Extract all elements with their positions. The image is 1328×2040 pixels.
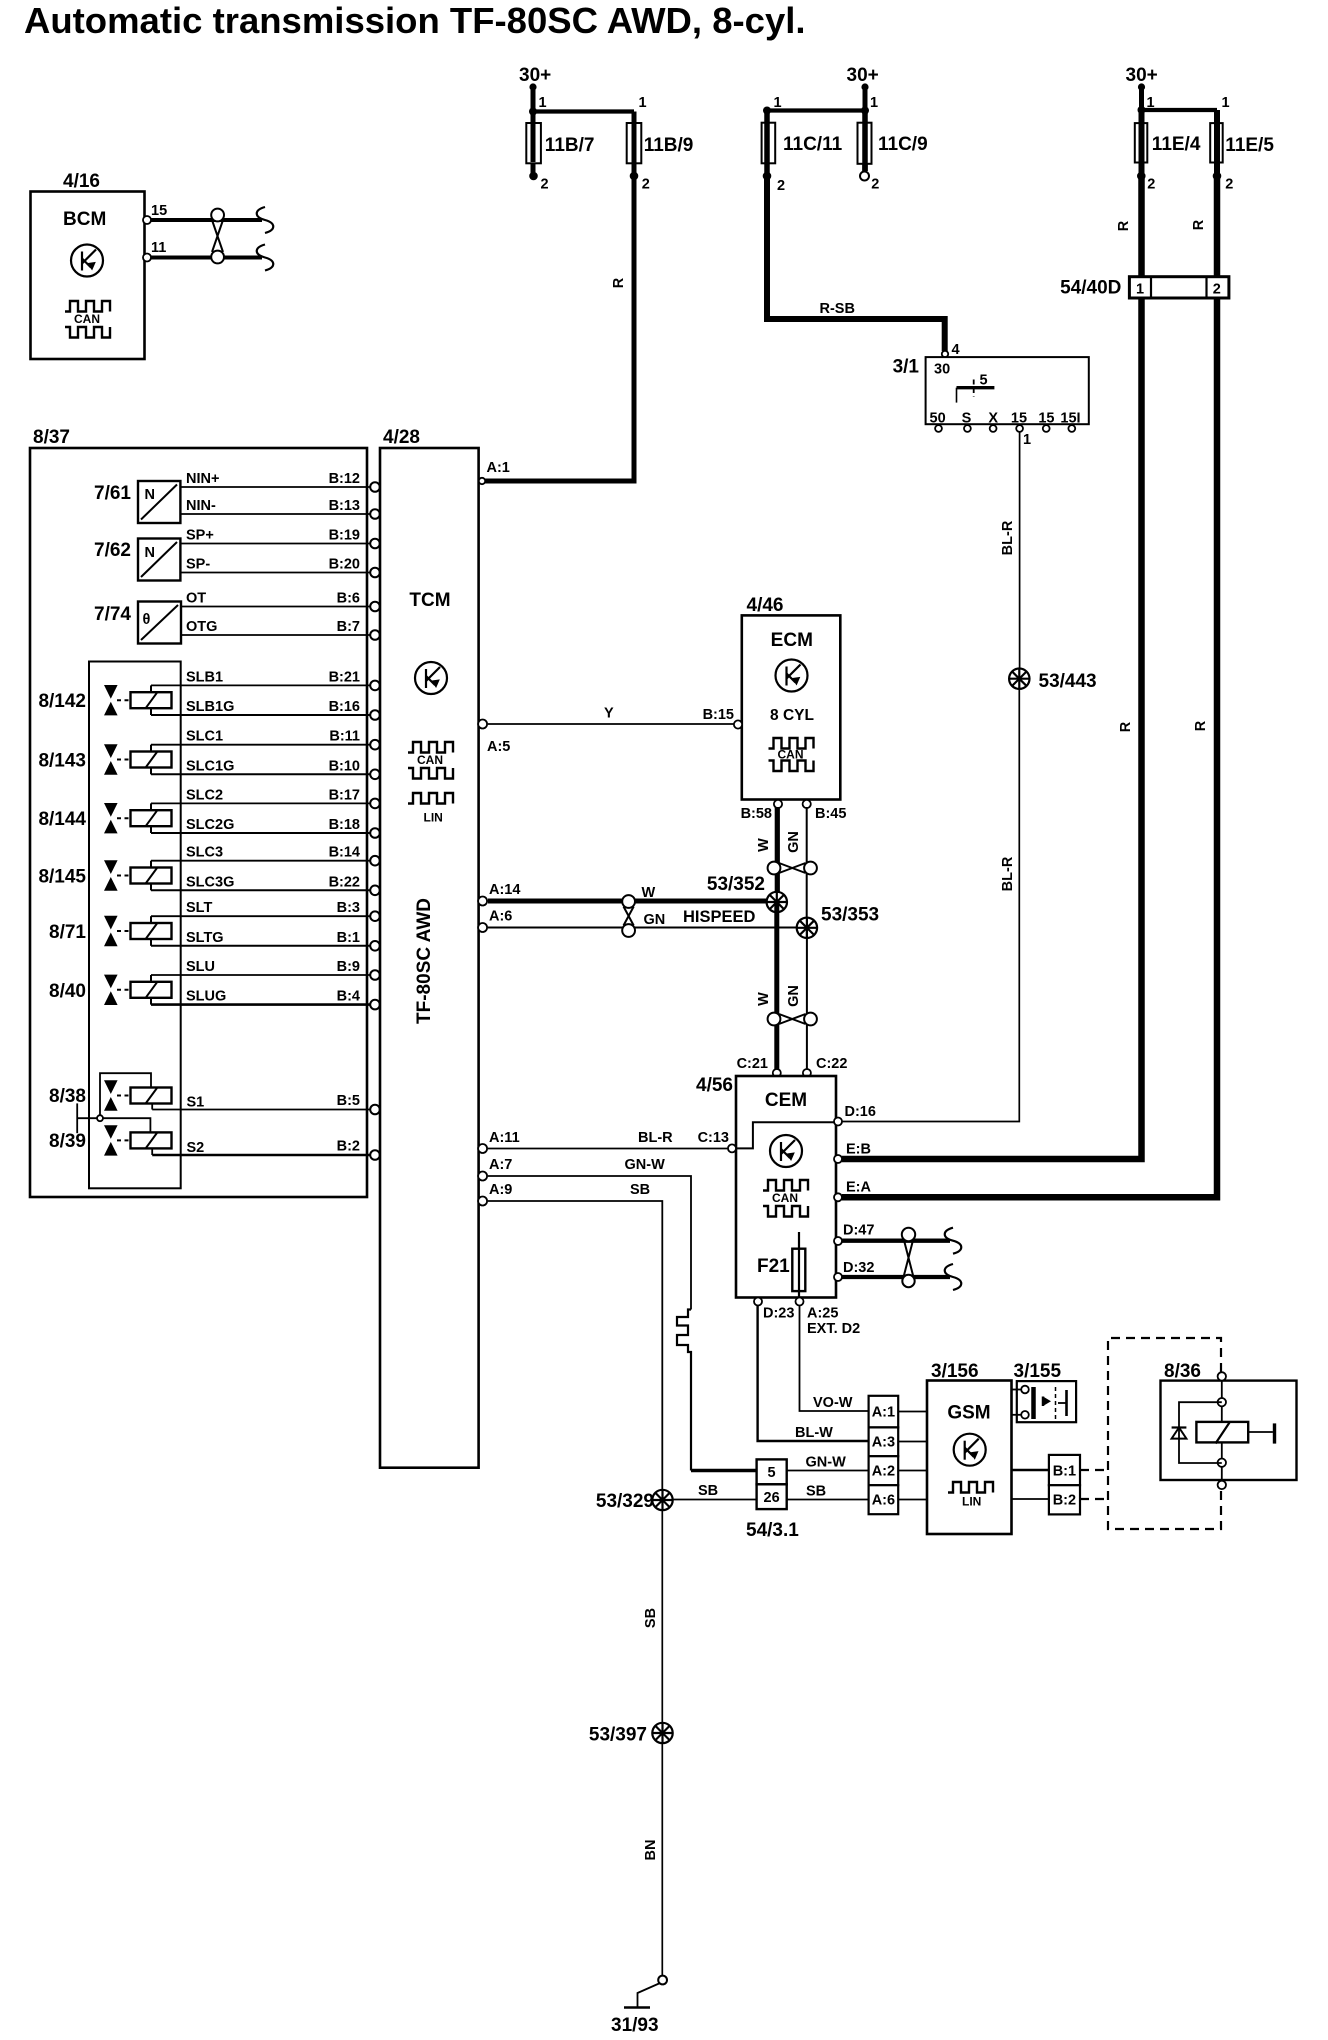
svg-text:X: X <box>988 411 998 427</box>
svg-text:BL-R: BL-R <box>1000 856 1016 891</box>
svg-text:3/155: 3/155 <box>1014 1361 1062 1382</box>
svg-text:W: W <box>642 885 656 901</box>
svg-text:15: 15 <box>151 203 167 219</box>
svg-text:BCM: BCM <box>63 209 106 230</box>
ground 31/93 <box>611 1976 667 2036</box>
solenoid valve 8/39 <box>49 1125 171 1155</box>
svg-text:4/16: 4/16 <box>63 171 100 192</box>
svg-text:SB: SB <box>630 1182 650 1198</box>
fuse 11B/9 <box>627 112 694 193</box>
svg-text:R: R <box>1193 720 1209 731</box>
svg-text:R-SB: R-SB <box>820 301 855 317</box>
svg-text:SB: SB <box>806 1484 826 1500</box>
svg-text:SLB1: SLB1 <box>186 669 223 685</box>
wire SLC1G <box>151 758 380 779</box>
svg-text:NIN+: NIN+ <box>186 471 219 487</box>
svg-text:B:3: B:3 <box>337 900 360 916</box>
svg-text:1: 1 <box>1147 95 1155 111</box>
svg-text:BL-R: BL-R <box>1000 520 1016 555</box>
CEM pin E:B <box>834 1142 871 1164</box>
wire SLT <box>151 900 380 921</box>
svg-text:BL-W: BL-W <box>795 1425 833 1441</box>
svg-text:8/144: 8/144 <box>38 809 86 830</box>
wire VO-W from CEM A:25 to GSM A:1 <box>800 1306 869 1412</box>
svg-text:GSM: GSM <box>947 1403 990 1424</box>
svg-text:D:32: D:32 <box>843 1260 874 1276</box>
wire fuse feed E <box>1142 108 1218 112</box>
svg-text:LIN: LIN <box>962 1495 981 1509</box>
svg-text:11C/11: 11C/11 <box>783 134 843 155</box>
wire GSM to B:2 <box>1012 1498 1049 1500</box>
svg-text:W: W <box>756 992 772 1006</box>
CEM pin C:13 <box>698 1130 736 1152</box>
svg-text:E:A: E:A <box>846 1180 872 1196</box>
wire R from 11E/5 to CEM E:A <box>842 176 1217 1197</box>
svg-text:B:11: B:11 <box>329 729 360 745</box>
svg-text:CAN: CAN <box>772 1191 798 1205</box>
svg-text:SLU: SLU <box>186 959 215 975</box>
svg-text:B:21: B:21 <box>329 669 360 685</box>
svg-text:1: 1 <box>1023 432 1031 448</box>
svg-text:8/37: 8/37 <box>33 427 70 448</box>
svg-text:8/40: 8/40 <box>49 981 86 1002</box>
twisted pair symbol upper W/GN <box>768 862 817 875</box>
svg-text:SB: SB <box>698 1483 718 1499</box>
wire OTG <box>181 619 380 640</box>
wire SB from 54/3.1 pin 26 to GSM A:6 <box>787 1484 869 1500</box>
svg-text:A:9: A:9 <box>489 1182 512 1198</box>
svg-text:3/156: 3/156 <box>931 1361 979 1382</box>
wire BL-W from CEM D:23 to GSM A:3 <box>758 1306 869 1442</box>
svg-text:B:9: B:9 <box>337 959 360 975</box>
control module ECM 4/46 <box>742 595 841 800</box>
svg-text:GN: GN <box>786 831 802 853</box>
svg-text:B:12: B:12 <box>329 471 360 487</box>
svg-text:N: N <box>145 545 155 561</box>
twisted pair symbol BCM <box>211 209 224 264</box>
dashed wire B:2 to 8/36 <box>1080 1498 1108 1500</box>
wire NIN+ <box>180 471 379 492</box>
svg-text:SLUG: SLUG <box>186 989 226 1005</box>
svg-text:A:1: A:1 <box>487 460 510 476</box>
svg-text:11E/5: 11E/5 <box>1225 135 1274 156</box>
svg-text:SLC1G: SLC1G <box>186 758 234 774</box>
svg-text:A:1: A:1 <box>872 1405 895 1421</box>
svg-text:B:20: B:20 <box>329 557 360 573</box>
battery feed 30+ (E group) <box>1126 65 1158 110</box>
svg-text:4/46: 4/46 <box>747 595 784 616</box>
wire SB below splice 53/329 <box>643 1510 662 1980</box>
CEM pin D:23 <box>754 1298 794 1322</box>
relay coil <box>1196 1422 1248 1443</box>
svg-text:53/329: 53/329 <box>596 1491 654 1512</box>
svg-text:SLC3G: SLC3G <box>186 874 234 890</box>
svg-text:EXT. D2: EXT. D2 <box>807 1321 860 1337</box>
control module TCM 4/28 <box>380 427 479 1468</box>
svg-text:1: 1 <box>1136 281 1144 297</box>
svg-text:S1: S1 <box>187 1095 205 1111</box>
wire break cut top <box>257 207 274 233</box>
wire SLB1G <box>151 699 380 720</box>
svg-text:D:47: D:47 <box>843 1223 874 1239</box>
wire fuse feed C <box>767 108 865 112</box>
svg-text:4/28: 4/28 <box>383 427 420 448</box>
svg-text:B:17: B:17 <box>329 787 360 803</box>
svg-text:GN-W: GN-W <box>625 1157 666 1173</box>
wire SLB1 <box>151 669 380 690</box>
wire GN-W from 54/3.1 pin 5 to GSM A:2 <box>787 1455 869 1471</box>
solenoid valve 8/71 <box>49 916 171 946</box>
svg-text:LIN: LIN <box>424 811 443 825</box>
CEM pin E:A <box>834 1180 872 1202</box>
svg-text:B:13: B:13 <box>329 498 360 514</box>
svg-text:TCM: TCM <box>409 590 450 611</box>
twisted pair symbol A:14/A:6 <box>622 885 665 937</box>
solenoid valve 8/142 <box>38 685 171 715</box>
wire break cut bottom <box>257 245 274 271</box>
svg-text:8 CYL: 8 CYL <box>770 707 814 724</box>
wire SB from splice 53/329 to 54/3.1 pin 26 <box>673 1483 757 1500</box>
svg-text:B:45: B:45 <box>815 806 846 822</box>
svg-text:2: 2 <box>541 177 549 193</box>
svg-text:8/39: 8/39 <box>49 1131 86 1152</box>
svg-text:B:14: B:14 <box>329 845 360 861</box>
svg-text:11C/9: 11C/9 <box>878 134 928 155</box>
wire SLC1 <box>151 729 380 750</box>
svg-text:Y: Y <box>604 706 614 722</box>
wire SLC2 <box>151 787 380 808</box>
wire SP+ <box>180 528 379 549</box>
wire OT <box>181 591 380 612</box>
svg-text:A:6: A:6 <box>489 909 512 925</box>
svg-text:30+: 30+ <box>847 65 879 86</box>
fuse 11E/4 <box>1135 110 1201 193</box>
svg-text:C:22: C:22 <box>816 1056 847 1072</box>
pin 11 <box>143 254 151 262</box>
temperature sensor 7/74 <box>94 602 181 644</box>
svg-text:53/443: 53/443 <box>1039 671 1097 692</box>
svg-text:54/3.1: 54/3.1 <box>746 1520 799 1541</box>
TCM pin A:5 and wire Y to ECM B:15 <box>478 706 738 756</box>
svg-text:4: 4 <box>952 342 960 358</box>
svg-text:GN: GN <box>644 912 666 928</box>
svg-text:2: 2 <box>777 178 785 194</box>
svg-text:B:10: B:10 <box>329 758 360 774</box>
svg-text:SLC1: SLC1 <box>186 729 223 745</box>
svg-text:OTG: OTG <box>186 619 217 635</box>
CEM pin D:16 <box>834 1104 876 1126</box>
wire BCM 15 <box>151 218 262 222</box>
wire SLC3 <box>151 845 380 866</box>
svg-text:TF-80SC AWD: TF-80SC AWD <box>414 898 435 1024</box>
splice 53/352 <box>707 874 787 912</box>
svg-text:50: 50 <box>930 411 946 427</box>
svg-text:53/352: 53/352 <box>707 874 765 895</box>
svg-text:F21: F21 <box>757 1256 790 1277</box>
svg-text:11E/4: 11E/4 <box>1152 134 1201 155</box>
svg-text:SLB1G: SLB1G <box>186 699 234 715</box>
wire D:47 stub <box>842 1239 950 1243</box>
TCM pin A:11 and wire BL-R to CEM C:13 <box>478 1130 729 1153</box>
svg-text:B:7: B:7 <box>337 619 360 635</box>
solenoid valve 8/40 <box>49 975 171 1005</box>
connector 54/3.1 <box>746 1459 799 1541</box>
wire GN from ECM B:45 to splice 53/353 <box>786 807 807 928</box>
svg-text:A:7: A:7 <box>489 1157 512 1173</box>
wire break cut D:32 <box>945 1264 962 1290</box>
svg-text:SLTG: SLTG <box>186 930 224 946</box>
splice 53/443 <box>1009 669 1097 693</box>
ECM pin B:15 <box>703 707 743 729</box>
svg-text:A:3: A:3 <box>872 1435 895 1451</box>
wire SLUG <box>151 989 380 1010</box>
svg-text:7/74: 7/74 <box>94 604 131 625</box>
GSM connector pins B:1 B:2 <box>1049 1455 1080 1514</box>
wire fuse feed B <box>533 109 634 113</box>
svg-text:W: W <box>756 838 772 852</box>
svg-text:15I: 15I <box>1060 411 1080 427</box>
wire D:32 stub <box>842 1275 950 1279</box>
svg-text:GN-W: GN-W <box>806 1455 847 1471</box>
svg-text:A:11: A:11 <box>489 1130 520 1146</box>
fuse 11B/7 <box>526 112 594 193</box>
svg-text:B:18: B:18 <box>329 817 360 833</box>
diode branch <box>1179 1402 1222 1463</box>
solenoid valve 8/145 <box>38 860 171 890</box>
svg-text:1: 1 <box>774 95 782 111</box>
svg-text:S2: S2 <box>187 1140 205 1156</box>
svg-text:BN: BN <box>643 1840 659 1861</box>
relay contact terminal <box>1248 1431 1273 1433</box>
svg-text:2: 2 <box>642 177 650 193</box>
fuse 11E/5 <box>1210 110 1274 193</box>
svg-text:B:2: B:2 <box>337 1139 360 1155</box>
dashed enclosure around relay <box>1108 1338 1221 1529</box>
CEM pin D:47 <box>834 1223 874 1246</box>
svg-text:CAN: CAN <box>74 312 100 326</box>
svg-text:8/145: 8/145 <box>38 867 86 888</box>
svg-text:A:14: A:14 <box>489 882 520 898</box>
relay 8/36 <box>1161 1361 1297 1489</box>
ECM pin B:45 <box>803 800 847 822</box>
wire S2 <box>152 1139 380 1160</box>
solenoid valve 8/38 <box>49 1073 171 1115</box>
solenoid valve 8/144 <box>38 803 171 833</box>
svg-text:2: 2 <box>1147 177 1155 193</box>
svg-text:30: 30 <box>934 362 950 378</box>
CEM pin A:25 <box>796 1298 861 1338</box>
junction node 8/38-8/39 <box>77 1103 103 1133</box>
svg-text:E:B: E:B <box>846 1142 871 1158</box>
control module GSM 3/156 <box>927 1361 1012 1534</box>
speed sensor 7/62 <box>94 539 180 581</box>
wire BL-R from 3/1 pin 15 to splice 53/443 <box>1000 432 1020 669</box>
svg-text:B:4: B:4 <box>337 989 360 1005</box>
wire R from 11E/4 to CEM E:B <box>842 176 1142 1159</box>
ECM pin B:58 <box>741 800 783 822</box>
battery feed 30+ (C group) <box>847 65 879 111</box>
wire SP- <box>180 557 379 578</box>
svg-text:SB: SB <box>643 1608 659 1628</box>
svg-text:SLT: SLT <box>186 900 212 916</box>
svg-text:8/142: 8/142 <box>38 691 86 712</box>
svg-text:R: R <box>1116 220 1132 231</box>
pin 15 <box>143 216 151 224</box>
diode <box>1172 1428 1187 1439</box>
svg-text:B:22: B:22 <box>329 874 360 890</box>
svg-text:θ: θ <box>143 612 151 628</box>
svg-text:A:25: A:25 <box>807 1306 838 1322</box>
wire break cut D:47 <box>945 1228 962 1254</box>
svg-text:A:2: A:2 <box>872 1464 895 1480</box>
svg-text:31/93: 31/93 <box>611 2015 659 2036</box>
LIN squarewave on GN-W wire <box>677 1310 691 1471</box>
svg-text:11B/9: 11B/9 <box>644 135 694 156</box>
wire NIN- <box>180 498 379 519</box>
wire GN from splice to CEM C:22 <box>786 928 807 1073</box>
wire GSM to B:1 <box>1012 1469 1049 1472</box>
svg-text:SLC2: SLC2 <box>186 787 223 803</box>
battery feed 30+ (B group) <box>519 65 551 112</box>
svg-text:B:1: B:1 <box>337 930 360 946</box>
solenoid enclosure box <box>89 662 181 1189</box>
svg-text:R: R <box>1118 721 1134 732</box>
svg-text:B:5: B:5 <box>337 1093 360 1109</box>
svg-text:SLC2G: SLC2G <box>186 817 234 833</box>
svg-text:7/62: 7/62 <box>94 540 131 561</box>
svg-text:1: 1 <box>1222 95 1230 111</box>
wire BL-R from splice 53/443 to CEM D:16 <box>842 689 1019 1122</box>
TCM pin A:14 and wire W to splice 53/352 <box>478 882 767 906</box>
svg-text:B:6: B:6 <box>337 591 360 607</box>
svg-text:B:1: B:1 <box>1053 1464 1076 1480</box>
TCM pin A:7 and wire GN-W <box>478 1157 691 1310</box>
svg-text:OT: OT <box>186 591 206 607</box>
svg-text:8/36: 8/36 <box>1164 1361 1201 1382</box>
svg-text:C:13: C:13 <box>698 1130 729 1146</box>
svg-text:GN: GN <box>786 985 802 1007</box>
wire SLU <box>151 959 380 980</box>
svg-text:BL-R: BL-R <box>638 1130 673 1146</box>
svg-text:A:6: A:6 <box>872 1493 895 1509</box>
wire node to 8/39 <box>103 1118 150 1132</box>
wire R from 11B/9 to TCM A:1 <box>485 176 634 481</box>
svg-text:8/38: 8/38 <box>49 1086 86 1107</box>
svg-text:ECM: ECM <box>771 630 813 651</box>
svg-text:A:5: A:5 <box>487 739 510 755</box>
fuse 11C/9 <box>858 111 928 193</box>
svg-text:54/40D: 54/40D <box>1060 278 1121 299</box>
svg-text:R: R <box>1191 219 1207 230</box>
svg-text:B:15: B:15 <box>703 707 734 723</box>
wire R-SB from 11C/11 to 3/1 pin 4 <box>767 176 945 351</box>
TCM pin A:6 and wire GN to splice 53/353 <box>478 909 797 933</box>
wire W from splice to CEM C:21 <box>756 902 777 1073</box>
speed sensor 7/61 <box>94 481 180 523</box>
svg-text:S: S <box>962 411 972 427</box>
control module CEM 4/56 <box>696 1075 836 1298</box>
svg-text:SP-: SP- <box>186 557 210 573</box>
wire SLTG <box>151 930 380 951</box>
svg-text:Automatic transmission TF-80SC: Automatic transmission TF-80SC AWD, 8-cy… <box>24 0 806 41</box>
twisted pair symbol D:47/D:32 <box>902 1228 915 1287</box>
svg-text:SP+: SP+ <box>186 528 214 544</box>
svg-text:8/143: 8/143 <box>38 751 86 772</box>
CEM pin C:21 <box>737 1056 781 1077</box>
connector housing 8/37 <box>30 427 367 1197</box>
connector 54/40D <box>1060 277 1229 299</box>
splice 53/329 <box>596 1490 673 1512</box>
wire S1 <box>152 1093 380 1114</box>
TCM pin A:1 <box>479 460 510 484</box>
svg-text:B:2: B:2 <box>1053 1493 1076 1509</box>
park switch 3/155 <box>1012 1361 1077 1422</box>
ignition switch 3/1 <box>893 342 1089 448</box>
svg-text:2: 2 <box>1213 281 1221 297</box>
CEM pin D:32 <box>834 1260 874 1281</box>
svg-text:11: 11 <box>151 240 166 256</box>
svg-text:VO-W: VO-W <box>813 1395 853 1411</box>
svg-text:1: 1 <box>639 95 647 111</box>
svg-text:30+: 30+ <box>519 65 551 86</box>
svg-text:53/353: 53/353 <box>821 905 879 926</box>
svg-text:1: 1 <box>539 95 547 111</box>
svg-text:15: 15 <box>1038 411 1054 427</box>
svg-text:CAN: CAN <box>417 753 443 767</box>
fuse 11C/11 <box>762 111 843 195</box>
svg-text:11B/7: 11B/7 <box>545 135 595 156</box>
svg-text:D:23: D:23 <box>763 1306 794 1322</box>
svg-text:26: 26 <box>764 1490 780 1506</box>
control module BCM 4/16 <box>31 171 168 359</box>
svg-text:B:58: B:58 <box>741 806 772 822</box>
dashed wire B:1 to 8/36 <box>1080 1469 1108 1471</box>
svg-text:15: 15 <box>1011 411 1027 427</box>
wires A pins to GSM <box>898 1411 927 1413</box>
svg-text:7/61: 7/61 <box>94 483 131 504</box>
svg-text:1: 1 <box>870 95 878 111</box>
TCM pin A:9 and wire SB <box>478 1182 662 1490</box>
twisted pair symbol lower W/GN <box>768 1013 817 1026</box>
svg-text:2: 2 <box>1225 177 1233 193</box>
wire SLC2G <box>151 817 380 838</box>
svg-text:30+: 30+ <box>1126 65 1158 86</box>
svg-text:8/71: 8/71 <box>49 922 86 943</box>
svg-text:5: 5 <box>768 1465 776 1481</box>
svg-text:CEM: CEM <box>765 1090 807 1111</box>
wire SLC3G <box>151 874 380 895</box>
solenoid valve 8/143 <box>38 744 171 774</box>
svg-text:HISPEED: HISPEED <box>683 908 756 926</box>
splice 53/397 <box>589 1723 673 1746</box>
svg-text:C:21: C:21 <box>737 1056 768 1072</box>
svg-text:B:16: B:16 <box>329 699 360 715</box>
svg-text:B:19: B:19 <box>329 528 360 544</box>
svg-text:2: 2 <box>871 177 879 193</box>
wire BCM 11 <box>151 256 262 260</box>
wire W from ECM B:58 to splice 53/352 <box>756 807 777 901</box>
svg-text:3/1: 3/1 <box>893 357 920 378</box>
svg-text:SLC3: SLC3 <box>186 845 223 861</box>
svg-text:53/397: 53/397 <box>589 1725 647 1746</box>
svg-text:NIN-: NIN- <box>186 498 216 514</box>
svg-text:R: R <box>611 277 627 288</box>
svg-text:4/56: 4/56 <box>696 1075 733 1096</box>
splice 53/353 <box>797 905 879 939</box>
GSM connector pins A:1 A:3 A:2 A:6 <box>869 1396 899 1514</box>
svg-text:D:16: D:16 <box>845 1104 876 1120</box>
CEM pin C:22 <box>803 1056 848 1077</box>
